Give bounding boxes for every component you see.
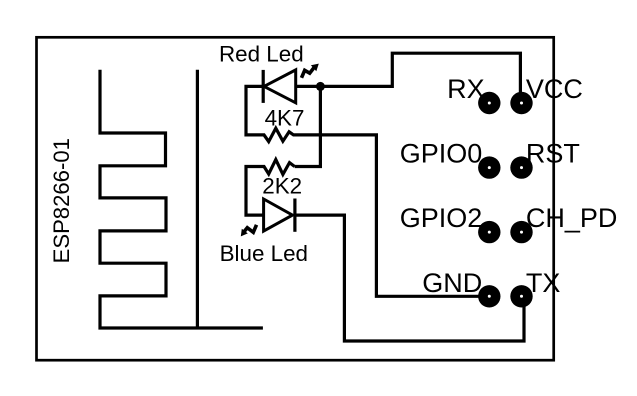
svg-text:Blue Led: Blue Led <box>220 241 308 266</box>
svg-text:RX: RX <box>447 74 485 104</box>
svg-text:GPIO0: GPIO0 <box>400 138 483 168</box>
svg-text:TX: TX <box>526 268 561 298</box>
svg-text:VCC: VCC <box>526 74 583 104</box>
svg-text:GND: GND <box>422 268 482 298</box>
svg-text:Red Led: Red Led <box>219 41 304 66</box>
svg-text:CH_PD: CH_PD <box>526 203 618 233</box>
svg-text:ESP8266-01: ESP8266-01 <box>49 138 74 263</box>
svg-text:4K7: 4K7 <box>265 106 305 131</box>
svg-text:GPIO2: GPIO2 <box>400 203 483 233</box>
svg-text:RST: RST <box>526 138 580 168</box>
svg-text:2K2: 2K2 <box>262 174 302 199</box>
